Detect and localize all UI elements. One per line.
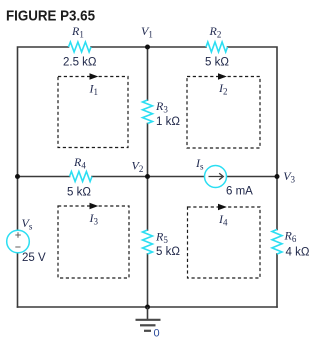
mesh loop I3 dashed box (58, 206, 129, 278)
label R6 (284, 229, 297, 245)
svg-text:0: 0 (154, 328, 160, 340)
label I1 (89, 82, 99, 98)
wire middle-left segment (18, 176, 70, 178)
value 1 kOhm (156, 116, 180, 128)
svg-text:2.5 kΩ: 2.5 kΩ (63, 57, 97, 69)
label I3 (89, 211, 99, 227)
wire right middle to R6 (276, 177, 278, 230)
label R2 (209, 24, 222, 40)
label V3 (283, 169, 295, 185)
node ground junction dot (145, 305, 150, 310)
loop I4 direction arrow (218, 204, 227, 211)
wire left middle to Vs (17, 177, 19, 231)
label I4 (218, 212, 228, 228)
wire top (V1 to R2) (148, 46, 207, 48)
voltage source Vs (7, 230, 30, 253)
loop I2 direction arrow (218, 73, 227, 80)
node left-middle junction dot (15, 174, 20, 179)
node V3 junction dot (275, 174, 280, 179)
node V2 junction dot (145, 174, 150, 179)
wire center R3 to V2 (147, 124, 149, 177)
svg-text:1 kΩ: 1 kΩ (156, 116, 180, 128)
wire center R5 to ground (147, 254, 149, 307)
label R4 (73, 155, 86, 171)
node V1 junction dot (145, 45, 150, 50)
ground symbol (136, 307, 161, 331)
label Is (195, 156, 204, 172)
resistor R6 (272, 230, 282, 255)
svg-text:6 mA: 6 mA (226, 186, 253, 198)
value 6 mA (226, 186, 253, 198)
svg-text:4 kΩ: 4 kΩ (286, 247, 310, 259)
resistor R4 (70, 172, 93, 182)
value 5 kOhm (R5) (156, 246, 180, 258)
wire middle (Is to V3) (227, 176, 278, 178)
wire top-right segment (228, 47, 278, 177)
svg-text:FIGURE P3.65: FIGURE P3.65 (6, 7, 95, 24)
wire center V1 to R3 (147, 47, 149, 100)
current source Is (205, 166, 227, 188)
resistor R2 (206, 42, 228, 52)
mesh loop I1 dashed box (58, 77, 128, 148)
wire center V2 to R5 (147, 177, 149, 231)
label V1 (141, 24, 153, 40)
svg-text:5 kΩ: 5 kΩ (156, 246, 180, 258)
value 2.5 kOhm (63, 57, 97, 69)
svg-text:5 kΩ: 5 kΩ (205, 57, 229, 69)
figure caption FIGURE P3.65 (6, 7, 95, 24)
loop I1 direction arrow (90, 73, 99, 80)
wire top-left segment (18, 47, 69, 177)
label I2 (218, 81, 228, 97)
wire bottom (18, 306, 278, 308)
mesh loop I4 dashed box (188, 207, 261, 278)
label R3 (155, 99, 168, 115)
wire middle (R4 to Is) (92, 176, 205, 178)
resistor R3 (143, 100, 153, 124)
wire left bottom segment (17, 253, 19, 308)
label Vs (22, 216, 33, 232)
value 25 V (22, 252, 46, 264)
resistor R1 (69, 42, 92, 52)
svg-text:5 kΩ: 5 kΩ (67, 187, 91, 199)
ground node label 0 (154, 328, 160, 340)
value 5 kOhm (R4) (67, 187, 91, 199)
mesh loop I2 dashed box (187, 77, 260, 149)
label R1 (71, 24, 84, 40)
value 5 kOhm (R2) (205, 57, 229, 69)
label R5 (155, 230, 168, 246)
resistor R5 (143, 230, 153, 254)
loop I3 direction arrow (90, 203, 99, 210)
wire top middle (R1 to V1) (91, 46, 148, 48)
wire right bottom segment (276, 254, 278, 307)
svg-text:25 V: 25 V (22, 252, 46, 264)
value 4 kOhm (286, 247, 310, 259)
label V2 (132, 159, 144, 175)
